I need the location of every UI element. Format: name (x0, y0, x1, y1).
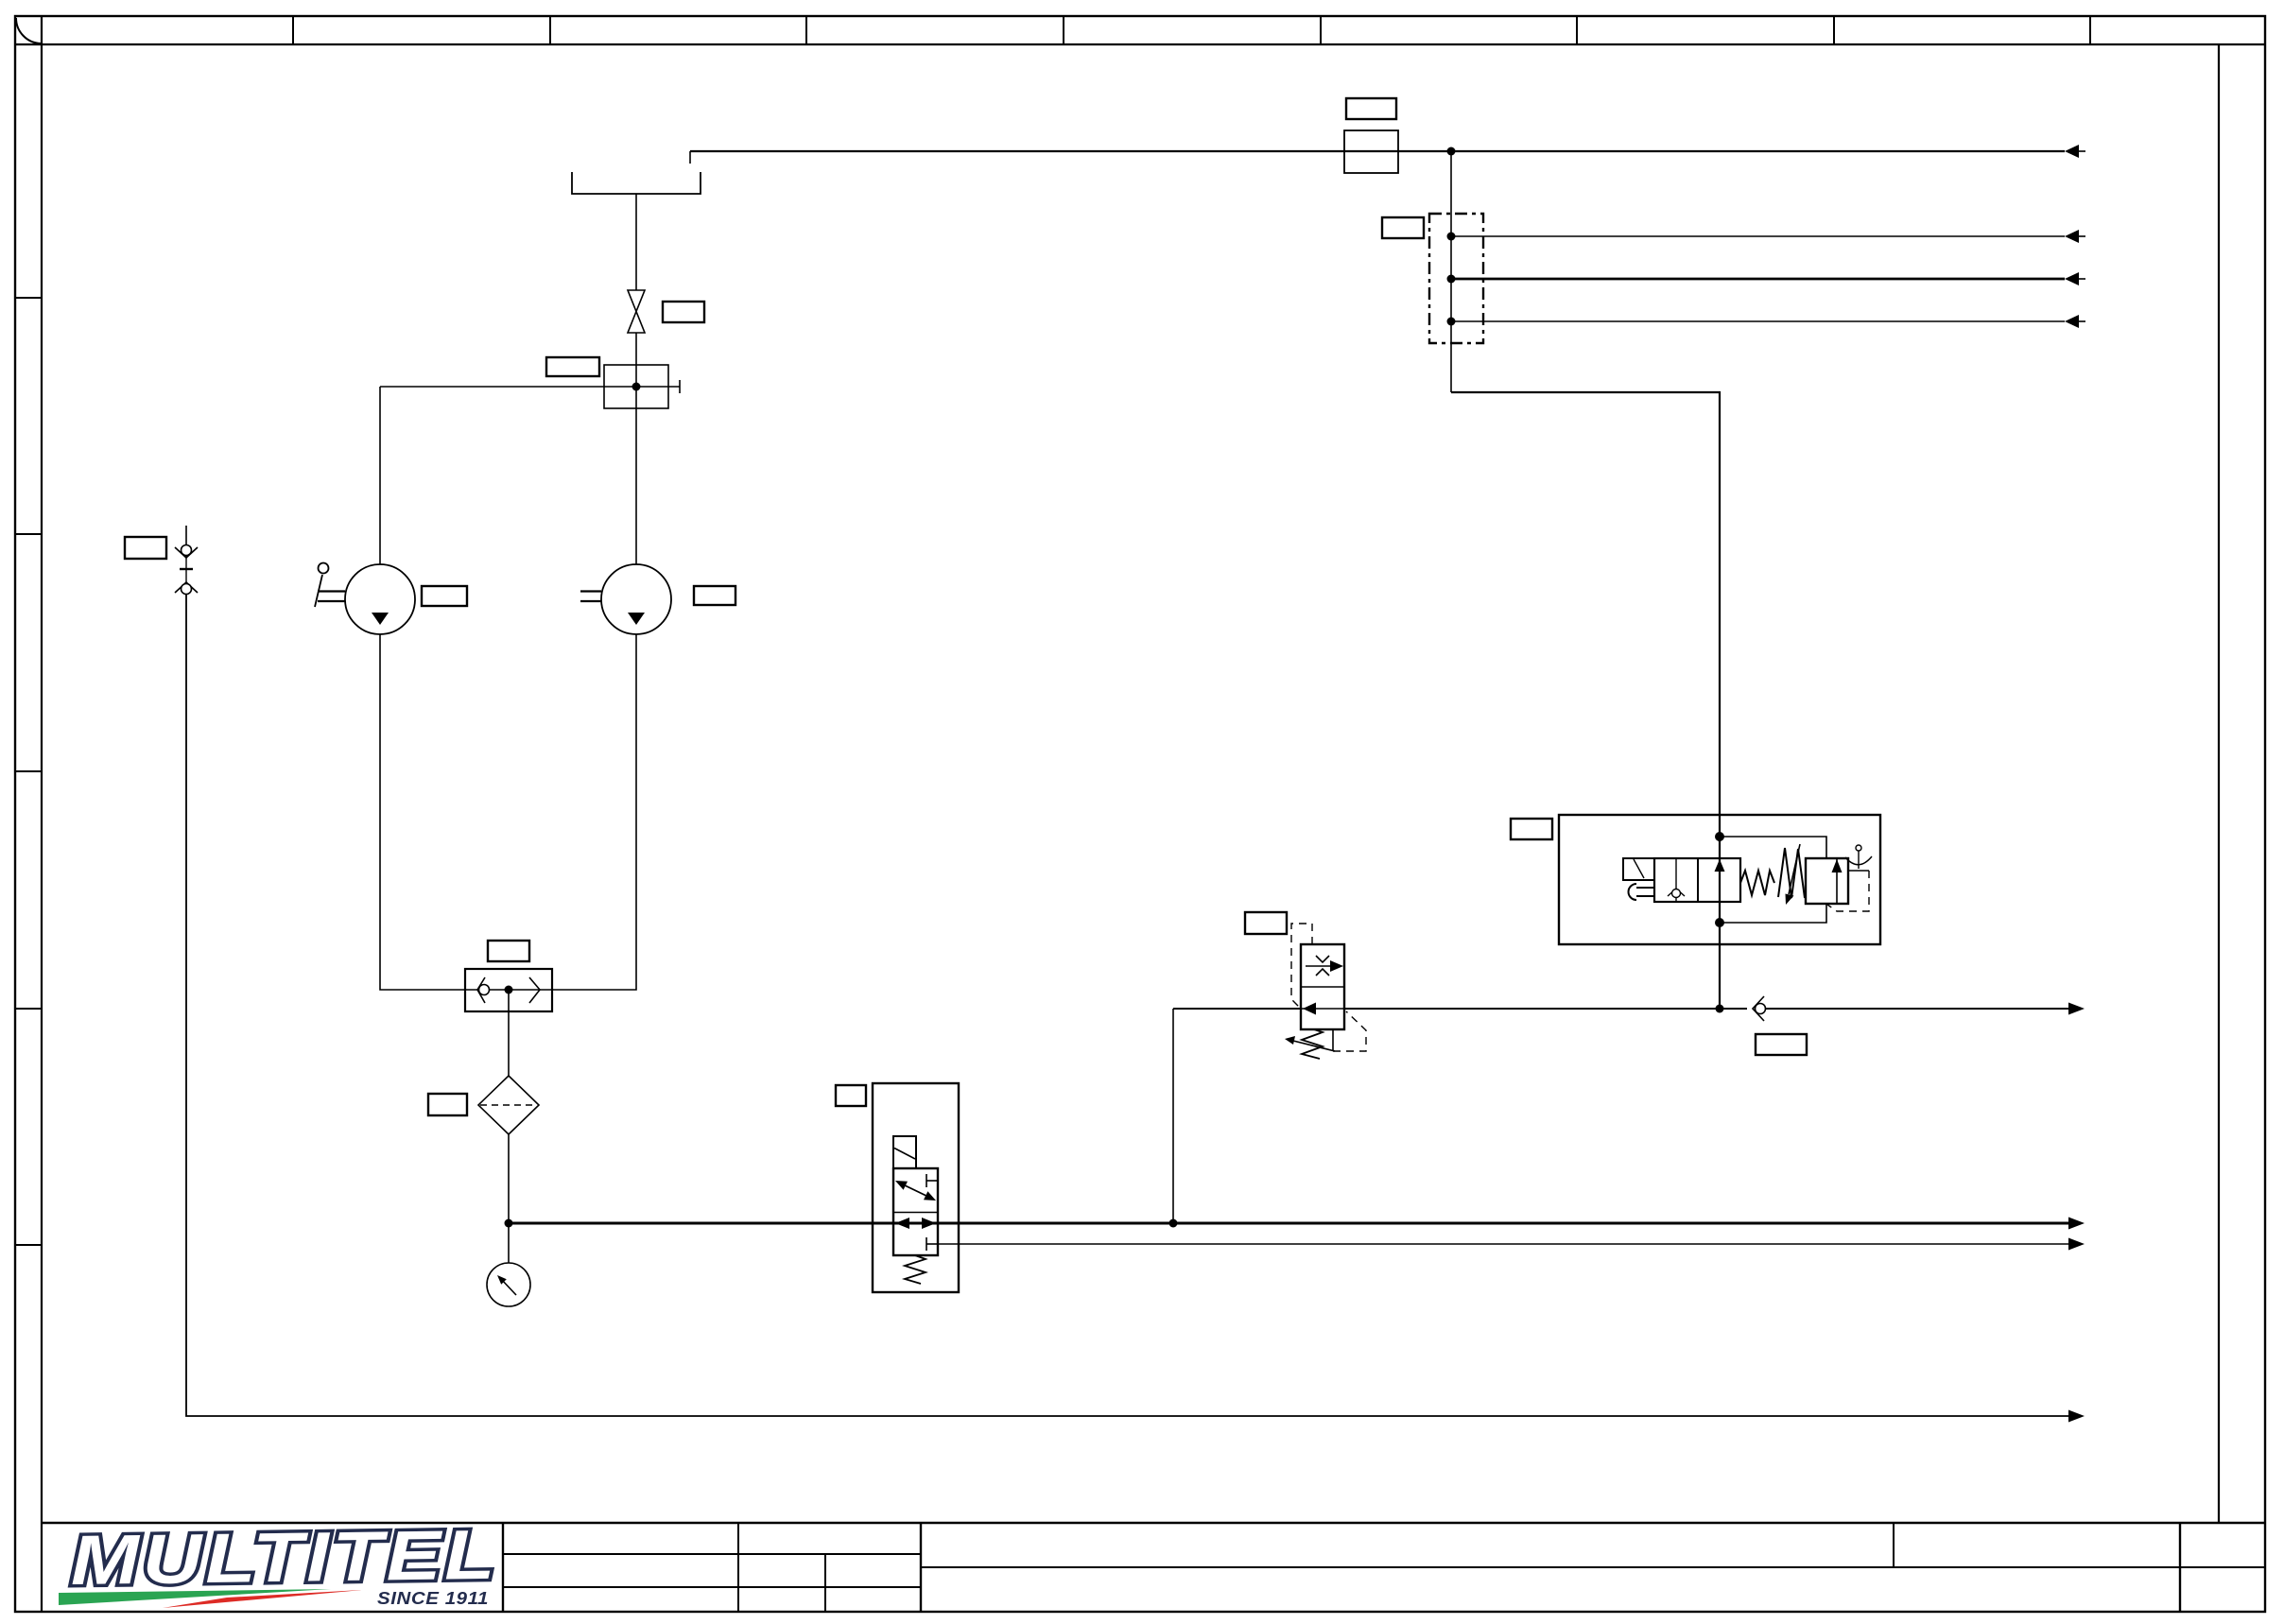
check position (1675, 858, 1677, 889)
wire shut-off valve to level switch (635, 333, 637, 365)
pressure gauge M1 (487, 1263, 530, 1306)
arrow secondary line end (2068, 1238, 2085, 1251)
wire manifold line 3 (1451, 320, 2065, 322)
top return line wire (690, 150, 2065, 152)
frame inner right border (2218, 44, 2220, 1523)
quick release coupling Q1 (185, 526, 187, 545)
node junction main line riser (1169, 1219, 1178, 1228)
proportional valve block assembly (873, 1083, 959, 1292)
label box check block (488, 941, 529, 961)
wire hand pump to check block (380, 634, 465, 990)
2-2 valve body (1654, 858, 1740, 902)
frame inner left border (41, 16, 43, 1612)
hand pump P1 (345, 564, 415, 634)
compensator pilot dashed right (1332, 1029, 1334, 1051)
tank T1 (572, 172, 701, 194)
wire coupling drain line (186, 595, 2068, 1416)
wire riser to compensator line (1172, 1009, 1174, 1223)
node manifold tap 3 (1447, 318, 1456, 326)
frame inner top border (15, 43, 2265, 45)
node manifold tap 1 (1447, 233, 1456, 241)
wire motor pump down (635, 408, 637, 564)
manifold dash-dot block (1429, 214, 1483, 343)
label box valve block (1511, 819, 1552, 839)
manual override (1636, 887, 1654, 889)
proportional valve spring (905, 1255, 926, 1284)
wire filter to main line (508, 1134, 510, 1223)
relief adjustable spring (1778, 848, 1805, 898)
left strip tick marks (15, 298, 42, 1245)
wire compensator line right (1344, 1008, 1747, 1010)
valve return spring (1740, 871, 1774, 895)
arrow compensator line end (2068, 1003, 2085, 1015)
logo red swoosh (163, 1590, 362, 1608)
level switch B1 (604, 365, 668, 408)
pilot head symbol (1856, 845, 1861, 851)
label box manifold (1382, 217, 1424, 238)
label box motor pump (694, 586, 735, 605)
label box quick coupling (125, 537, 166, 559)
open position up arrow (1715, 859, 1725, 872)
node compensator junction (1716, 1005, 1724, 1013)
label box return component (1346, 98, 1396, 119)
svg-text:MULTITEL: MULTITEL (70, 1515, 498, 1599)
arrow manifold line 1 (2065, 230, 2079, 243)
node block bottom junction (1715, 918, 1724, 927)
label box pilot check (1756, 1034, 1807, 1055)
arrow manifold line 2 (2065, 272, 2079, 285)
top position variable restrictor arrow (903, 1184, 928, 1197)
wire manifold line 2 (1451, 278, 2065, 281)
compensator adjust arrow (1293, 1041, 1335, 1051)
block internal connections (1720, 837, 1826, 858)
node block top junction (1715, 832, 1724, 841)
solenoid of 2-2 valve (1623, 858, 1654, 880)
proportional solenoid (893, 1136, 916, 1168)
shut-off valve V1 (628, 290, 645, 312)
wire motor pump to check block (552, 634, 636, 990)
label box hand pump (422, 586, 467, 606)
double check valve block V2 (465, 969, 552, 1011)
compensator spring (1302, 1029, 1323, 1059)
wire left branch down to hand pump (379, 387, 381, 564)
svg-text:SINCE 1911: SINCE 1911 (377, 1589, 489, 1608)
arrow top return line (2065, 145, 2079, 158)
wire secondary line LS (938, 1243, 2068, 1245)
arrow manifold line 3 (2065, 315, 2079, 328)
label box proportional valve (836, 1085, 866, 1106)
filter F1 (478, 1076, 539, 1134)
wire manifold to valve block (1451, 392, 1720, 1009)
label box filter (428, 1094, 467, 1115)
label box level switch (546, 357, 599, 376)
node return junction (1447, 147, 1456, 156)
proportional valve body (893, 1168, 938, 1255)
label box compensator (1245, 912, 1287, 934)
wire compensator line to arrow (1766, 1008, 2068, 1010)
wire junction to gauge (508, 1223, 510, 1263)
pilot operated check valve V4 (1753, 996, 1764, 1021)
logo green swoosh (59, 1589, 331, 1605)
flow control compensator valve V3 (1301, 944, 1344, 1029)
MULTITEL logo (70, 1515, 498, 1599)
wire check block to filter (508, 990, 510, 1076)
wire manifold line 1 (1451, 235, 2065, 237)
wire manifold riser (1450, 151, 1452, 392)
node manifold tap 2 (1447, 275, 1456, 284)
compensator pilot dashed left (1291, 924, 1312, 1009)
pilot dashed connections (1848, 870, 1869, 872)
wire main pressure line P (509, 1222, 2068, 1225)
inline component box on return line (1344, 130, 1398, 173)
wire tank to shut-off valve (635, 194, 637, 290)
arrow main pressure line end (2068, 1218, 2085, 1230)
counterbalance valve block assembly (1559, 815, 1880, 944)
motor pump P2 (601, 564, 671, 634)
label box shut-off valve (663, 302, 704, 322)
fold mark corner arc (16, 18, 41, 43)
top strip tick marks (293, 16, 2090, 44)
title block (42, 1523, 2265, 1612)
arrow drain line end (2068, 1410, 2085, 1423)
relief valve box (1806, 858, 1848, 904)
bottom position through arrows (895, 1218, 909, 1229)
wire compensator line left (1173, 1008, 1301, 1010)
node main line junction at gauge (505, 1219, 513, 1228)
